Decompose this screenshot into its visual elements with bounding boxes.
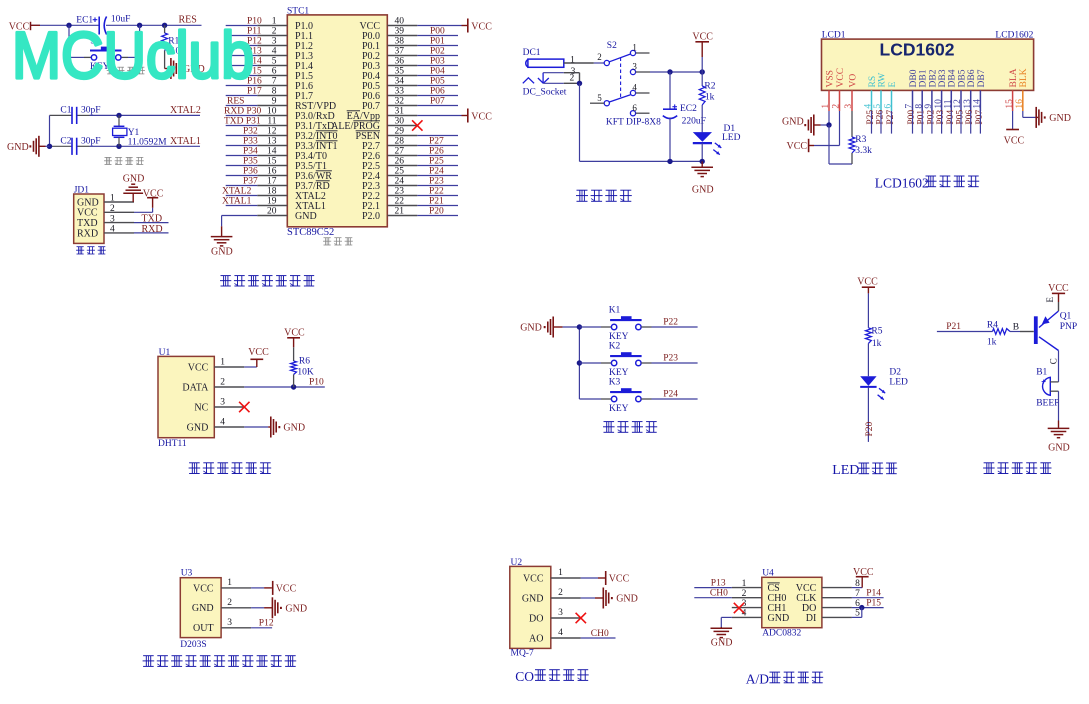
IC U1 DHT11 box (158, 348, 214, 449)
svg-text:23: 23 (395, 187, 405, 197)
LCD1 pin 5 stub (880, 90, 882, 111)
svg-text:34: 34 (395, 77, 405, 87)
title A/D转换电路 (746, 671, 823, 686)
svg-text:P03: P03 (430, 56, 445, 66)
svg-text:39: 39 (395, 27, 405, 37)
svg-text:P25: P25 (429, 156, 444, 166)
wire switch pin5 stub (590, 102, 604, 104)
net label P07 (LCD pin 14) (975, 110, 985, 134)
wire/net P33 (MCU pin 13) (226, 136, 258, 146)
svg-text:VCC: VCC (853, 567, 874, 578)
svg-text:S2: S2 (607, 41, 617, 51)
LCD1 pin 13 DB6 name (967, 69, 977, 87)
svg-text:DB2: DB2 (928, 69, 938, 87)
svg-text:DB4: DB4 (948, 69, 958, 87)
capacitor C2 30pF (60, 137, 100, 155)
U-STC1 pin 28 (P2.7) (362, 137, 417, 152)
svg-text:VCC: VCC (787, 141, 808, 152)
wire VSS down (829, 125, 852, 164)
svg-text:GND: GND (211, 246, 233, 257)
junction GND-caps (47, 144, 52, 149)
wire U4 pin5 to DO (852, 608, 862, 618)
svg-text:CH0: CH0 (710, 588, 728, 598)
U1 pin 1 VCC (188, 357, 245, 373)
svg-text:12: 12 (267, 127, 277, 137)
LCD1 pin 3 stub (851, 90, 853, 111)
LCD1 pin 15 stub (1012, 90, 1014, 111)
svg-text:RXD: RXD (77, 228, 98, 239)
wire U1 pin4 to GND (244, 426, 270, 428)
svg-text:K3: K3 (609, 378, 621, 388)
power port VCC (LCD) (787, 139, 815, 152)
LCD1 pin 1 stub (828, 90, 830, 111)
wire MCU pin40 to VCC (417, 25, 468, 27)
U-STC1 pin 36 (P0.3) (362, 57, 417, 72)
svg-text:R4: R4 (987, 321, 998, 331)
svg-text:LCD1602: LCD1602 (875, 175, 929, 190)
svg-text:CH0: CH0 (591, 629, 609, 639)
LCD1 pin 10 stub (941, 90, 943, 111)
svg-text:VCC: VCC (276, 583, 297, 594)
svg-text:GND: GND (283, 423, 305, 434)
svg-text:30pF: 30pF (81, 106, 101, 116)
pin label E (rotated) (1045, 297, 1055, 303)
LCD1 pin 12 DB5 name (957, 69, 967, 87)
svg-text:VCC: VCC (143, 188, 164, 199)
wire U4 pin7 / net P14 (852, 589, 884, 599)
U2 pin 4 AO (529, 628, 581, 644)
svg-text:GND: GND (616, 594, 638, 605)
power port VCC (R6) (284, 328, 305, 348)
svg-text:P36: P36 (243, 166, 258, 176)
svg-text:E: E (1045, 297, 1055, 303)
wire K3 right / net P24 (641, 390, 697, 400)
U-STC1 pin 8 (P1.7) (257, 87, 313, 102)
svg-text:VCC: VCC (1048, 283, 1069, 294)
svg-text:GND: GND (782, 116, 804, 127)
svg-text:P26: P26 (429, 146, 444, 156)
U4 pin 4 GND (732, 609, 789, 624)
svg-text:STC89C52: STC89C52 (287, 227, 334, 238)
resistor R1 10k (162, 25, 186, 68)
junction DO-DI (859, 605, 864, 610)
LCD1 pin 2 number (832, 104, 842, 109)
wire U4 pin2 / net CH0 (694, 588, 732, 598)
wire/net P05 (MCU pin 34) (417, 76, 458, 86)
svg-text:PNP: PNP (1060, 322, 1077, 332)
wire/net P06 (MCU pin 33) (417, 86, 458, 96)
U2 pin 2 GND (522, 588, 581, 604)
svg-text:27: 27 (395, 147, 405, 157)
LCD1 pin 12 stub (960, 90, 962, 111)
U2 pin 3 DO (529, 608, 581, 624)
svg-text:DO: DO (529, 613, 543, 624)
svg-text:ADC0832: ADC0832 (762, 629, 801, 639)
svg-text:P05: P05 (430, 76, 445, 86)
svg-text:3: 3 (227, 618, 232, 628)
svg-text:OUT: OUT (193, 623, 214, 634)
U-STC1 pin 37 (P0.2) (362, 47, 417, 62)
svg-text:GND: GND (123, 174, 145, 185)
svg-text:P35: P35 (243, 156, 258, 166)
svg-text:18: 18 (267, 187, 277, 197)
resistor R4 1k (987, 321, 1010, 348)
svg-text:MCUclub: MCUclub (12, 18, 254, 92)
LCD1 pin 14 number (973, 99, 983, 109)
svg-text:31: 31 (395, 107, 405, 117)
DC socket DC1 (523, 48, 576, 97)
U-STC1 pin 11 (P3.1/TxD) (257, 117, 334, 132)
wire U3 pin3 / net P12 (251, 619, 274, 629)
ground of buzzer (1048, 428, 1070, 453)
U-STC1 pin 3 (P1.2) (257, 37, 313, 52)
svg-text:15: 15 (267, 157, 277, 167)
wire/net P34 (MCU pin 14) (226, 146, 258, 156)
wire socket pin1 to switch (564, 62, 604, 64)
net label RES (179, 14, 197, 25)
svg-text:K2: K2 (609, 342, 621, 352)
svg-text:VCC: VCC (523, 573, 544, 584)
svg-text:2: 2 (570, 74, 575, 84)
svg-text:P12: P12 (259, 619, 274, 629)
svg-text:GND: GND (7, 142, 29, 153)
svg-text:P32: P32 (243, 126, 258, 136)
wire D2 to P20 (867, 387, 869, 442)
svg-text:BLK: BLK (1019, 68, 1029, 87)
svg-text:1: 1 (110, 194, 115, 204)
svg-text:DB7: DB7 (977, 69, 987, 87)
U3 pin 3 OUT (193, 618, 251, 634)
power port VCC (U3) (273, 581, 297, 595)
power port VCC (LCD pin15) (1004, 111, 1025, 146)
wire GND to key bus (563, 326, 580, 328)
LCD1 pin 13 number (963, 99, 973, 109)
svg-text:MQ-7: MQ-7 (511, 649, 534, 659)
watermark MCUclub (12, 18, 254, 92)
wire key bus vertical (578, 327, 580, 399)
svg-text:P34: P34 (243, 146, 258, 156)
svg-text:5: 5 (272, 57, 277, 67)
svg-text:P15: P15 (866, 598, 881, 608)
svg-text:4: 4 (632, 83, 637, 93)
svg-text:VO: VO (848, 74, 858, 88)
U-STC1 pin 39 (P0.0) (362, 27, 417, 42)
wire K2 left (579, 362, 611, 364)
svg-text:AO: AO (529, 633, 543, 644)
junction bottom EC2 (667, 159, 672, 164)
wire XTAL2 row (50, 114, 201, 116)
LCD1 pin 8 DB1 name (919, 69, 929, 87)
power port VCC (LED) (857, 277, 878, 294)
wire U1 pin2 DATA (244, 386, 324, 388)
svg-text:33: 33 (395, 87, 405, 97)
net label P06 (LCD pin 13) (965, 110, 975, 134)
connector JD1 box (74, 185, 104, 243)
svg-text:BEEP: BEEP (1036, 399, 1059, 409)
svg-text:3: 3 (110, 214, 115, 224)
svg-text:P23: P23 (429, 176, 444, 186)
power port VCC (MCU pin40) (468, 19, 492, 33)
U-STC1 pin 14 (P3.4/T0) (257, 147, 327, 162)
svg-text:NC: NC (194, 402, 208, 413)
LCD1 pin 6 stub (891, 90, 893, 111)
svg-text:2: 2 (110, 204, 115, 214)
wire D1 to bottom rail (701, 143, 703, 161)
title LED灯电路 (832, 463, 897, 478)
title 蜂鸣器电路 (983, 463, 1051, 474)
svg-text:30pF: 30pF (81, 137, 101, 147)
LCD1 pin 6 E name (888, 82, 898, 88)
net label P03 (LCD pin 10) (936, 110, 946, 134)
junction key bus K2 (577, 360, 582, 365)
LCD1 pin 4 number (864, 104, 874, 109)
U-STC1 pin 21 (P2.0) (362, 207, 417, 222)
U-STC1 pin 23 (P2.2) (362, 187, 417, 202)
U-STC1 pin 6 (P1.5) (257, 67, 313, 82)
wire/net P20 (MCU pin 21) (417, 206, 458, 216)
U1 pin 4 GND (187, 417, 245, 433)
svg-text:3: 3 (220, 397, 225, 407)
LCD1 pin 11 DB4 name (948, 69, 958, 87)
svg-text:RW: RW (877, 73, 887, 88)
wire power left rail (579, 83, 581, 161)
U-STC1 pin 13 (P3.3/INT1) (257, 137, 337, 152)
svg-text:P02: P02 (430, 46, 445, 56)
LCD1 pin 15 number (1005, 99, 1015, 109)
wire MCU pin20 to ground (222, 216, 258, 227)
LCD1 pin 15 BLA name (1009, 68, 1019, 87)
svg-text:32: 32 (395, 97, 405, 107)
svg-text:9: 9 (272, 97, 277, 107)
resistor R6 10K (291, 347, 314, 387)
svg-text:DC_Socket: DC_Socket (523, 87, 567, 97)
wire/net P24 (MCU pin 25) (417, 166, 458, 176)
LCD1 pin 7 number (905, 104, 915, 109)
junction socket pin2 node (577, 81, 582, 86)
wire/net P37 (MCU pin 17) (226, 176, 258, 186)
push-button K3 KEY (609, 378, 642, 414)
wire U3 pin2 to GND (251, 607, 272, 609)
switch S2 KFT DIP-8X8 (597, 41, 661, 127)
wire K1 right / net P22 (641, 318, 697, 328)
power port VCC (supply) (692, 31, 713, 57)
svg-text:GND: GND (192, 603, 214, 614)
svg-text:DB1: DB1 (919, 69, 929, 87)
svg-text:3: 3 (558, 608, 563, 618)
svg-text:6: 6 (632, 103, 637, 113)
LCD1 pin 16 stub (1022, 90, 1024, 111)
svg-text:VCC: VCC (248, 347, 269, 358)
svg-text:2: 2 (227, 598, 232, 608)
svg-text:11.0592M: 11.0592M (128, 137, 168, 147)
wire LCD pin16 to GND (1023, 111, 1036, 117)
svg-text:2: 2 (742, 589, 747, 599)
LCD1 pin 14 DB7 name (977, 69, 987, 87)
JD1 pin3 wire TXD (134, 214, 169, 225)
svg-text:P24: P24 (429, 166, 444, 176)
svg-text:22: 22 (395, 197, 405, 207)
wire/net P17 (MCU pin 8) (226, 86, 262, 96)
junction VCC rail top (700, 69, 705, 74)
wire/net RES (MCU pin 9) (226, 96, 258, 106)
svg-text:GND: GND (285, 603, 307, 614)
U-STC1 pin 29 (PSEN) (356, 127, 418, 142)
IC U4 ADC0832 box (762, 569, 822, 639)
title 按键电路 (603, 422, 657, 433)
svg-text:P33: P33 (243, 136, 258, 146)
LCD1 pin 11 number (944, 99, 954, 108)
U4 pin 6 DO (802, 599, 860, 614)
ground of supply (691, 161, 713, 195)
svg-text:LCD1602: LCD1602 (880, 39, 955, 59)
ground of U2 (603, 588, 638, 609)
U1 pin 2 DATA (182, 377, 244, 393)
wire MCU pin31 to VCC (417, 115, 468, 117)
wire/net TXD P31 (MCU pin 11) (224, 116, 261, 126)
IC U2 MQ-7 box (510, 558, 551, 658)
U-STC1 pin 26 (P2.5) (362, 157, 417, 172)
wire K3 left (579, 398, 611, 400)
svg-text:DHT11: DHT11 (158, 439, 187, 449)
wire/net P04 (MCU pin 35) (417, 66, 458, 76)
title 单片机最小系统 (220, 276, 315, 286)
svg-text:20: 20 (267, 207, 277, 217)
U-STC1 pin 27 (P2.6) (362, 147, 417, 162)
svg-text:2: 2 (558, 588, 563, 598)
svg-text:VCC: VCC (471, 111, 492, 122)
svg-text:3: 3 (272, 37, 277, 47)
svg-text:A/D: A/D (746, 671, 770, 686)
svg-text:37: 37 (395, 47, 405, 57)
LCD1 pin 10 DB3 name (938, 69, 948, 87)
wire U3 pin1 to VCC (251, 587, 272, 589)
junction LCD VSS-GND (826, 122, 831, 127)
svg-text:RES: RES (227, 96, 244, 106)
svg-text:24: 24 (395, 177, 405, 187)
label 晶振电路 (gray) (104, 157, 144, 164)
wire U2 pin4 / net CH0 (581, 629, 616, 639)
svg-text:R6: R6 (299, 356, 310, 366)
wire/net P11 (MCU pin 2) (226, 26, 262, 36)
U3 pin 2 GND (192, 598, 251, 614)
wire/net P35 (MCU pin 15) (226, 156, 258, 166)
svg-text:GND: GND (522, 593, 544, 604)
U-STC1 pin 40 (VCC) (359, 17, 417, 32)
svg-text:17: 17 (267, 177, 277, 187)
JD1 pin 2 VCC (77, 204, 134, 219)
svg-text:DATA: DATA (182, 382, 209, 393)
wire VCC to R5 (867, 293, 869, 327)
title 电源电路 (576, 190, 632, 201)
svg-text:RXD: RXD (142, 224, 163, 235)
label 单片机 (gray) (323, 238, 353, 245)
U-STC1 pin 35 (P0.4) (362, 67, 417, 82)
svg-text:3.3k: 3.3k (855, 146, 872, 156)
LCD1 pin 4 RS name (868, 76, 878, 88)
svg-text:VCC: VCC (188, 362, 209, 373)
wire R4 to base (1010, 323, 1034, 333)
svg-text:VCC: VCC (471, 21, 492, 32)
svg-text:1: 1 (558, 568, 563, 578)
ground of LCD (782, 115, 829, 136)
svg-text:P20: P20 (429, 206, 444, 216)
ground of keys (520, 317, 562, 338)
svg-text:DI: DI (806, 613, 817, 624)
svg-text:2: 2 (597, 52, 602, 62)
U-STC1 pin 15 (P3.5/T1) (257, 157, 327, 172)
junction node S1-left (66, 23, 71, 28)
wire switch pin3 to VCC rail (636, 71, 703, 73)
IC LCD1 box (822, 30, 1034, 90)
svg-text:KEY: KEY (609, 404, 629, 414)
capacitor C1 30pF (60, 106, 100, 124)
wire R2 to D1 (701, 105, 703, 132)
svg-text:3: 3 (632, 62, 637, 72)
svg-text:C2: C2 (60, 137, 71, 147)
junction bottom GND (700, 159, 705, 164)
U4 pin 2 CH0 (732, 589, 787, 604)
LCD1 pin 2 VCC name (836, 68, 846, 88)
LCD1 pin 8 stub (921, 90, 923, 111)
U-STC1 pin 34 (P0.5) (362, 77, 417, 92)
LCD1 pin 1 number (821, 104, 831, 109)
svg-text:P22: P22 (429, 186, 444, 196)
LCD1 pin 3 VO name (848, 74, 858, 88)
wire EC1 to RES node (106, 24, 202, 26)
U4 pin 7 CLK (796, 589, 860, 604)
LCD1 pin 13 stub (970, 90, 972, 111)
buzzer B1 BEEP (1036, 367, 1059, 408)
svg-text:P24: P24 (663, 390, 678, 400)
wire U2 pin2 to GND (581, 597, 603, 599)
LCD1 pin 4 stub (871, 90, 873, 111)
LCD1 pin 11 stub (950, 90, 952, 111)
resistor R5 1k (866, 327, 883, 349)
svg-text:P14: P14 (866, 589, 881, 599)
U-STC1 pin 2 (P1.1) (257, 27, 313, 42)
U-STC1 pin 9 (RST/VPD) (257, 97, 336, 112)
svg-text:B: B (1013, 323, 1019, 333)
LCD1 pin 12 number (953, 99, 963, 109)
wire U4 pin4 to GND (721, 617, 732, 628)
net label P04 (LCD pin 11) (946, 110, 956, 134)
wire emitter to VCC (1058, 293, 1060, 311)
U4 pin 3 CH1 (732, 599, 787, 614)
svg-text:P2.0: P2.0 (362, 211, 380, 222)
wire/net P21 (MCU pin 22) (417, 196, 458, 206)
wire/net P01 (MCU pin 38) (417, 36, 458, 46)
wire U4 pin8 to VCC (852, 577, 862, 588)
U-STC1 pin 4 (P1.3) (257, 47, 313, 62)
svg-text:VCC: VCC (1004, 135, 1025, 146)
net label P02 (LCD pin 9) (926, 110, 936, 134)
svg-text:5: 5 (597, 93, 602, 103)
svg-text:VCC: VCC (692, 31, 713, 42)
U-STC1 pin 5 (P1.4) (257, 57, 313, 72)
svg-text:GND: GND (295, 211, 317, 222)
svg-text:VCC: VCC (857, 277, 878, 288)
svg-text:CO: CO (515, 669, 534, 684)
U-STC1 pin 32 (P0.7) (362, 97, 417, 112)
svg-text:XTAL2: XTAL2 (222, 186, 252, 196)
junction XTAL1-Y1 (116, 144, 121, 149)
svg-text:21: 21 (395, 207, 405, 217)
power port VCC (buzzer) (1048, 283, 1069, 294)
U-STC1 pin 10 (P3.0/RxD) (257, 107, 334, 122)
no-connect X (U2 pin3) (576, 613, 586, 623)
U3 pin 1 VCC (193, 578, 251, 594)
svg-text:19: 19 (267, 197, 277, 207)
